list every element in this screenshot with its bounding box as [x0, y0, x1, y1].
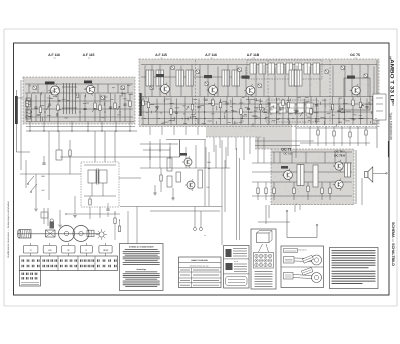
svg-text:OC 71: OC 71 — [281, 148, 291, 152]
svg-text:MW: MW — [207, 161, 211, 164]
svg-text:A.F 11B: A.F 11B — [247, 53, 260, 57]
svg-text:„AMBO T 33 LP“: „AMBO T 33 LP“ — [389, 56, 395, 107]
svg-text:Type NN8080/30: Type NN8080/30 — [389, 112, 393, 140]
svg-text:A.F 116: A.F 116 — [48, 53, 60, 57]
svg-text:MW: MW — [41, 175, 45, 178]
svg-text:A.F 116: A.F 116 — [205, 53, 217, 57]
svg-text:M: M — [67, 249, 69, 252]
svg-text:LW: LW — [42, 189, 45, 192]
svg-text:Ton: Ton — [207, 167, 210, 170]
svg-text:OC 610: OC 610 — [284, 152, 293, 155]
svg-text:OC 75: OC 75 — [350, 53, 360, 57]
svg-text:SCHEMA — SCHALTBILD: SCHEMA — SCHALTBILD — [391, 222, 395, 266]
svg-text:OC 76 II: OC 76 II — [334, 153, 345, 157]
svg-text:Schaltfolge: Schaltfolge — [136, 268, 145, 271]
svg-text:UKW: UKW — [103, 249, 109, 252]
svg-text:A.F 115: A.F 115 — [155, 53, 167, 57]
svg-text:Modifications réservées — Ände: Modifications réservées — Änderungen vor… — [7, 200, 10, 258]
svg-text:AMBO STANDARD: AMBO STANDARD — [191, 259, 208, 262]
svg-text:SCHEMA DU COMMUTATEUR: SCHEMA DU COMMUTATEUR — [129, 246, 154, 249]
svg-text:LW: LW — [207, 186, 210, 189]
svg-text:A.F 115: A.F 115 — [83, 53, 95, 57]
